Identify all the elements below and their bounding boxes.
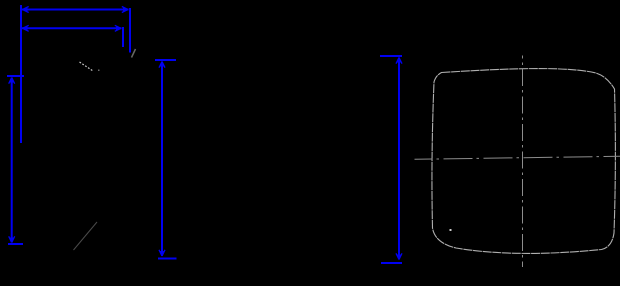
sketch speckle diagonal in side view [80, 62, 94, 71]
extension tick top of left height dimension [7, 75, 24, 77]
stray dot in front view [450, 229, 452, 231]
dimension extension line left (x=21) [20, 5, 22, 143]
arrowhead right of top outer dimension [122, 7, 128, 13]
extension tick bottom of left height dimension [8, 243, 23, 245]
extension tick bottom of middle-right height dimension [381, 262, 402, 264]
arrowhead down of middle-right height dimension [396, 253, 402, 259]
arrowhead down of middle-left height dimension [159, 250, 165, 256]
arrowhead up of left height dimension [9, 78, 15, 84]
dimension extension line right inner (x=123) [122, 27, 124, 47]
front view horizontal centerline [415, 156, 620, 159]
extension tick top of middle-right height dimension [380, 55, 402, 57]
arrowhead left of top outer dimension [23, 7, 29, 13]
extension tick bottom of middle-left height dimension [158, 258, 177, 260]
arrowhead up of middle-right height dimension [396, 58, 402, 64]
faint dot right of speckle diagonal [98, 70, 100, 72]
leader diagonal bottom left [74, 222, 98, 250]
extension tick top of middle-left height dimension [155, 59, 176, 61]
arrowhead up of middle-left height dimension [159, 62, 165, 68]
leader stroke near top extension lines [132, 49, 136, 58]
dimension line top outer width [22, 9, 129, 11]
dimension extension line right outer (x=130) [129, 8, 131, 53]
arrowhead right of top inner dimension [115, 25, 121, 31]
arrowhead left of top inner dimension [23, 25, 29, 31]
dimension line top inner width [22, 27, 122, 29]
dimension line left height [11, 78, 13, 243]
front view rounded square outline [432, 69, 615, 254]
arrowhead down of left height dimension [9, 236, 15, 242]
dimension line middle-left height [161, 62, 163, 257]
dimension line middle-right height [398, 58, 400, 260]
front view vertical centerline [522, 56, 524, 268]
